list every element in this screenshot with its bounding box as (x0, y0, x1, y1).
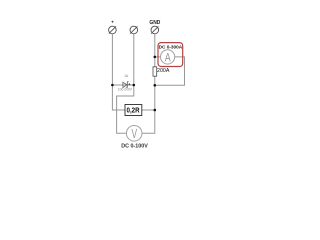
ammeter P1 (161, 50, 175, 65)
svg-text:1A: 1A (124, 74, 129, 78)
terminal X3 GND (151, 26, 159, 34)
wire: + terminal down to 0,2R left (112, 34, 125, 110)
wire: terminal X2 down to diode cathode node (133, 34, 135, 85)
wire: ammeter right, down, back to shunt bottom node (155, 57, 185, 85)
node: diode anode junction (111, 84, 114, 87)
diode V1 1A 100-200V (123, 82, 130, 88)
wire: cathode node down, jog left, down to voltmeter left (117, 85, 134, 133)
node: ammeter tap junction (154, 56, 157, 59)
svg-text:V: V (132, 127, 138, 141)
terminal X2 (130, 26, 138, 34)
svg-text:GND: GND (149, 20, 160, 26)
svg-text:DC 0-300A: DC 0-300A (159, 44, 183, 49)
svg-text:A: A (165, 51, 171, 64)
red highlight box around ammeter (158, 43, 183, 67)
svg-text:DC 0-100V: DC 0-100V (121, 144, 148, 150)
resistor R1 0,2R (125, 105, 142, 116)
node: 0,2R right junction (154, 109, 157, 112)
svg-text:0,2R: 0,2R (127, 107, 140, 114)
shunt resistor R-shunt 200A (153, 67, 157, 76)
terminal X1 (+) (109, 26, 117, 34)
wire: shunt bottom down to voltmeter right (142, 76, 155, 133)
wire: ammeter tap to ammeter left (155, 56, 161, 58)
svg-text:200A: 200A (157, 68, 170, 74)
node: diode cathode junction (133, 84, 136, 87)
wire: diode branch (112, 84, 133, 86)
wire: GND terminal down to shunt top (154, 34, 156, 67)
svg-text:100-200V: 100-200V (118, 88, 133, 92)
voltmeter P2 (126, 126, 142, 142)
svg-text:+: + (111, 20, 114, 25)
node: shunt bottom junction (154, 84, 157, 87)
wire: 0,2R right to main right line (142, 109, 155, 111)
